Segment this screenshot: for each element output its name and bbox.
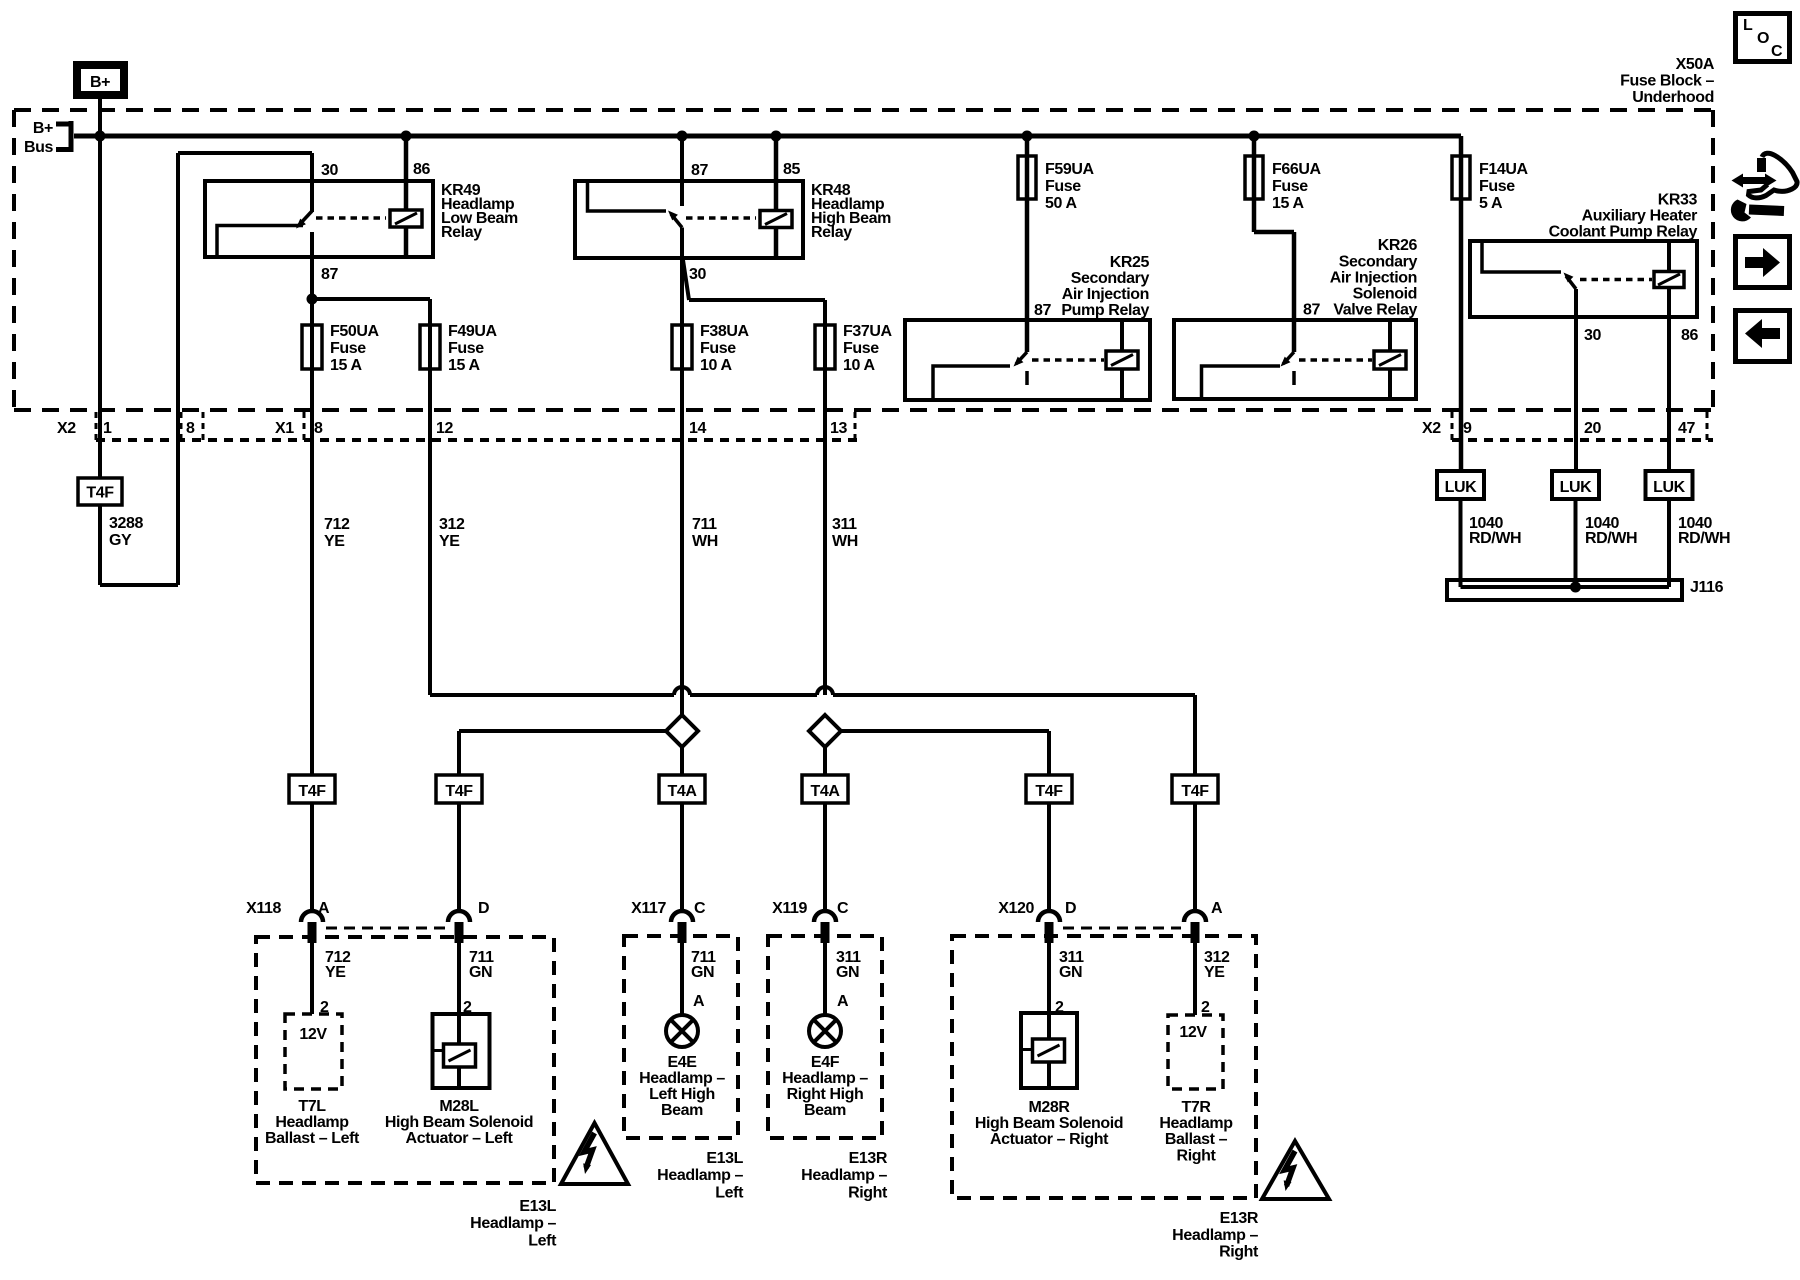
svg-text:E13L: E13L (706, 1150, 743, 1167)
svg-text:Secondary: Secondary (1339, 254, 1418, 271)
svg-text:Beam: Beam (661, 1102, 703, 1119)
svg-text:A: A (318, 900, 330, 917)
pin label A (E4F) (837, 993, 849, 1010)
pin label 2 (T7R) (1201, 999, 1210, 1016)
svg-text:WH: WH (832, 533, 858, 550)
fuse F59UA 50 A (1018, 156, 1095, 212)
relay KR48 Headlamp High Beam Relay (575, 181, 803, 258)
svg-text:D: D (1065, 900, 1076, 917)
svg-text:87: 87 (691, 162, 708, 179)
svg-text:E4F: E4F (811, 1054, 840, 1071)
splice diamond on 711 wire (666, 715, 698, 747)
svg-text:Secondary: Secondary (1071, 270, 1150, 287)
svg-text:711: 711 (692, 516, 717, 533)
svg-text:15 A: 15 A (448, 357, 480, 374)
pin label 87 (KR25) (1034, 302, 1051, 319)
pin label 30 (KR49) (321, 162, 338, 179)
label M28R High Beam Solenoid Actuator - Right (975, 1099, 1123, 1148)
in-line connector LUK 2 (1552, 471, 1599, 499)
wire 311 below diamond (823, 747, 827, 775)
svg-text:Solenoid: Solenoid (1353, 286, 1417, 303)
svg-text:LUK: LUK (1560, 479, 1593, 496)
in-line connector T4A at x=682 (659, 775, 705, 803)
svg-text:F37UA: F37UA (843, 323, 893, 340)
label E13R Headlamp Right (lamp box) (801, 1150, 888, 1202)
svg-text:8: 8 (314, 420, 323, 437)
wire 711 GN inside lamp box (680, 943, 684, 1015)
svg-text:Fuse: Fuse (448, 340, 484, 357)
svg-text:YE: YE (325, 964, 346, 981)
svg-text:20: 20 (1584, 420, 1601, 437)
svg-text:D: D (478, 900, 489, 917)
label E13R Headlamp Right (1172, 1210, 1259, 1261)
svg-text:E4E: E4E (667, 1054, 697, 1071)
icon LOC (1736, 14, 1790, 62)
svg-text:Beam: Beam (804, 1102, 846, 1119)
wire KR48 pin 87 from bus (680, 136, 684, 206)
in-line connector T4F (left, circuit 3288) (78, 478, 122, 505)
svg-text:E13L: E13L (519, 1198, 556, 1215)
junction node: F59UA on bus (1022, 131, 1033, 142)
svg-text:GY: GY (109, 532, 132, 549)
relay KR26 Secondary Air Injection Solenoid Valve Relay (1174, 320, 1416, 399)
relay KR25 Secondary Air Injection Pump Relay (905, 320, 1150, 400)
svg-text:J116: J116 (1690, 579, 1724, 596)
component box E13L Headlamp Left (high beam lamp) (624, 936, 738, 1138)
in-line connector T4F at x=1049 (1026, 775, 1072, 803)
junction node: KR48 87 on bus (677, 131, 688, 142)
svg-text:Relay: Relay (441, 224, 482, 241)
svg-text:High Beam Solenoid: High Beam Solenoid (385, 1114, 533, 1131)
label E13L Headlamp Left (lamp box) (657, 1150, 744, 1202)
label wire 3288 GY (109, 515, 143, 549)
svg-text:X50A: X50A (1676, 56, 1715, 73)
svg-text:Fuse: Fuse (843, 340, 879, 357)
svg-text:M28L: M28L (439, 1098, 479, 1115)
svg-text:High Beam Solenoid: High Beam Solenoid (975, 1115, 1123, 1132)
ballast T7R 12V box (1168, 1015, 1223, 1089)
label X50A Fuse Block - Underhood (1620, 56, 1715, 106)
svg-text:F59UA: F59UA (1045, 161, 1095, 178)
svg-text:Left: Left (715, 1185, 744, 1202)
warning triangle (E13L) (561, 1123, 628, 1184)
svg-text:Actuator – Right: Actuator – Right (990, 1131, 1109, 1148)
svg-text:O: O (1757, 30, 1769, 47)
fuse F66UA 15 A (1245, 156, 1322, 212)
svg-text:M28R: M28R (1028, 1099, 1070, 1116)
svg-text:B+: B+ (33, 120, 53, 137)
svg-text:30: 30 (321, 162, 338, 179)
wire 311 GN inside lamp box (823, 943, 827, 1015)
wire 712 YE inside E13L (310, 943, 314, 1014)
svg-text:Pump Relay: Pump Relay (1061, 302, 1149, 319)
label wire 1040 RD/WH (pin 9) (1469, 515, 1521, 547)
svg-text:3288: 3288 (109, 515, 143, 532)
svg-text:RD/WH: RD/WH (1469, 530, 1521, 547)
in-line connector LUK 3 (1646, 471, 1693, 499)
label wire 712 YE (inside) (325, 949, 351, 981)
svg-text:47: 47 (1678, 420, 1695, 437)
connector terminal C of X119 at x=825 (772, 900, 849, 943)
svg-text:Ballast –: Ballast – (1165, 1131, 1228, 1148)
fuse F38UA 10 A (672, 323, 750, 374)
wire 711 GN inside E13L (457, 943, 461, 1044)
icon arrow left (1736, 311, 1790, 362)
wire below T4 connector x=825 (823, 803, 827, 911)
pin label A (E4E) (693, 993, 705, 1010)
wire branch to F49UA (312, 299, 430, 695)
svg-text:Headlamp –: Headlamp – (782, 1070, 868, 1087)
actuator M28L solenoid (433, 1014, 490, 1088)
svg-text:A: A (693, 993, 705, 1010)
wire 311 GN branch to T4F(D) (841, 731, 1049, 775)
junction node: 87 to F49UA branch (307, 294, 318, 305)
in-line connector T4F at x=459 (436, 775, 482, 803)
svg-text:GN: GN (1059, 964, 1082, 981)
svg-text:T4F: T4F (1181, 783, 1209, 800)
svg-text:87: 87 (1303, 302, 1320, 319)
label wire 1040 RD/WH (pin 20) (1585, 515, 1637, 547)
label KR48 Headlamp High Beam Relay (811, 182, 891, 241)
connector terminal A of X118 at x=312 (246, 900, 330, 943)
wire 312 YE horizontal run with crossover hops (430, 687, 1195, 775)
svg-text:F14UA: F14UA (1479, 161, 1529, 178)
wire bus to F66UA to KR26 (jog) (1254, 136, 1294, 352)
svg-text:87: 87 (321, 266, 338, 283)
svg-text:Coolant Pump Relay: Coolant Pump Relay (1549, 224, 1698, 241)
svg-text:A: A (837, 993, 849, 1010)
svg-text:Actuator – Left: Actuator – Left (406, 1130, 514, 1147)
svg-text:X1: X1 (275, 420, 294, 437)
icon arrow right (1736, 237, 1790, 288)
wire 311 GN inside E13R (1047, 943, 1051, 1042)
svg-text:712: 712 (324, 516, 350, 533)
svg-text:Underhood: Underhood (1632, 89, 1714, 106)
wire below T4 connector x=312 (310, 803, 314, 911)
pin label 30 (KR48) (689, 266, 706, 283)
wire KR49 pin 87 down through fuse F50UA (310, 257, 314, 775)
svg-text:312: 312 (439, 516, 465, 533)
wire branch KR48 30 to F37UA (683, 260, 825, 695)
wire below T4 connector x=682 (680, 803, 684, 911)
label M28L High Beam Solenoid Actuator - Left (385, 1098, 533, 1147)
wire below T4 connector x=459 (457, 803, 461, 911)
svg-text:Fuse: Fuse (700, 340, 736, 357)
splice pack J116 (1447, 579, 1724, 600)
in-line connector T4F at x=1195 (1172, 775, 1218, 803)
svg-text:T4F: T4F (298, 783, 326, 800)
wire B+ feed down from B+ box (98, 99, 102, 478)
svg-text:RD/WH: RD/WH (1585, 530, 1637, 547)
svg-text:GN: GN (836, 964, 859, 981)
svg-text:Headlamp –: Headlamp – (1172, 1227, 1258, 1244)
warning triangle (E13R) (1262, 1141, 1329, 1199)
svg-text:Fuse Block –: Fuse Block – (1620, 73, 1714, 90)
wire bus to F59UA to KR25 (1025, 136, 1030, 352)
wire below T4 connector x=1195 (1193, 803, 1197, 911)
label T7R Headlamp Ballast - Right (1159, 1099, 1233, 1165)
svg-text:YE: YE (439, 533, 460, 550)
svg-text:T4A: T4A (667, 783, 697, 800)
svg-text:X118: X118 (246, 900, 281, 917)
svg-text:F38UA: F38UA (700, 323, 750, 340)
fuse F49UA 15 A (420, 323, 498, 374)
svg-text:15 A: 15 A (1272, 195, 1304, 212)
svg-text:30: 30 (689, 266, 706, 283)
svg-text:C: C (837, 900, 849, 917)
svg-text:GN: GN (691, 964, 714, 981)
svg-text:Fuse: Fuse (1479, 178, 1515, 195)
svg-text:Left High: Left High (649, 1086, 715, 1103)
pin label 87 (KR48) (691, 162, 708, 179)
label E4F Headlamp Right High Beam (782, 1054, 868, 1119)
svg-text:L: L (1743, 17, 1753, 34)
relay KR49 Headlamp Low Beam Relay (205, 181, 433, 257)
connector strip X2 (left) (57, 412, 860, 440)
wire 3288 GY U-loop (100, 153, 178, 585)
svg-text:X120: X120 (998, 900, 1034, 917)
svg-text:1: 1 (103, 420, 112, 437)
svg-text:T7L: T7L (298, 1098, 326, 1115)
connector terminal D at x=459 (448, 900, 489, 943)
junction node: KR49 86 on bus (401, 131, 412, 142)
icon service tools (arrow + wrench) (1731, 153, 1797, 221)
svg-text:Right: Right (1219, 1244, 1259, 1261)
svg-text:30: 30 (1584, 327, 1601, 344)
wire KR33 pin 86 down to LUK (pin 47) (1667, 288, 1671, 472)
component box E13R Headlamp Right (high beam lamp) (768, 936, 882, 1138)
pin label 30 (KR33) (1584, 327, 1601, 344)
svg-text:B+: B+ (90, 74, 110, 91)
svg-text:Headlamp: Headlamp (1159, 1115, 1233, 1132)
fuse F14UA 5 A (1452, 156, 1529, 212)
pin label 87 (KR49) (321, 266, 338, 283)
svg-text:Bus: Bus (24, 139, 54, 156)
svg-text:87: 87 (1034, 302, 1051, 319)
relay KR33 Auxiliary Heater Coolant Pump Relay (1470, 241, 1697, 317)
wire feed to KR49 pin 30 (178, 153, 312, 212)
svg-text:KR25: KR25 (1110, 254, 1150, 271)
svg-text:Fuse: Fuse (330, 340, 366, 357)
svg-text:GN: GN (469, 964, 492, 981)
component box E13R Headlamp Right (actuator+ballast) (952, 936, 1256, 1198)
wire below T4 connector x=1049 (1047, 803, 1051, 911)
svg-text:C: C (1771, 43, 1783, 60)
svg-text:T4F: T4F (445, 783, 473, 800)
svg-text:10 A: 10 A (700, 357, 732, 374)
ballast T7L 12V box (285, 1014, 342, 1089)
svg-text:T4F: T4F (1035, 783, 1063, 800)
svg-text:YE: YE (324, 533, 345, 550)
svg-text:12V: 12V (299, 1026, 327, 1043)
label E13L Headlamp Left (470, 1198, 557, 1250)
connector strip X1 (275, 412, 855, 440)
svg-text:15 A: 15 A (330, 357, 362, 374)
svg-text:Auxiliary Heater: Auxiliary Heater (1582, 208, 1698, 225)
svg-text:86: 86 (1681, 327, 1698, 344)
B+ Bus terminal bracket (24, 120, 71, 156)
pin label 2 (M28R) (1055, 999, 1064, 1016)
pin label 85 (KR48) (783, 161, 800, 178)
svg-text:F49UA: F49UA (448, 323, 498, 340)
svg-text:Headlamp –: Headlamp – (639, 1070, 725, 1087)
label KR49 Headlamp Low Beam Relay (441, 182, 518, 241)
pin label 87 (KR26) (1303, 302, 1320, 319)
svg-text:50 A: 50 A (1045, 195, 1077, 212)
connector terminal C of X117 at x=682 (631, 900, 706, 943)
actuator M28R solenoid (1021, 1013, 1077, 1088)
wire LUK2 to J116 (1574, 499, 1578, 587)
svg-text:Fuse: Fuse (1045, 178, 1081, 195)
svg-text:13: 13 (830, 420, 847, 437)
svg-text:X2: X2 (57, 420, 76, 437)
label wire 312 YE (439, 516, 465, 550)
label T7L Headlamp Ballast - Left (265, 1098, 360, 1147)
svg-text:A: A (1211, 900, 1223, 917)
wire 712 YE (X1-8 down to X118-A) (310, 369, 314, 775)
svg-text:T7R: T7R (1181, 1099, 1211, 1116)
component box E13L Headlamp Left (ballast+actuator) (256, 937, 554, 1183)
svg-text:F66UA: F66UA (1272, 161, 1322, 178)
svg-text:Headlamp –: Headlamp – (657, 1167, 743, 1184)
in-line connector T4A at x=825 (802, 775, 848, 803)
label wire 311 GN (inside E13R) (1059, 949, 1084, 981)
label KR25 Secondary Air Injection Pump Relay (1061, 254, 1149, 319)
fuse F50UA 15 A (302, 323, 380, 374)
wire F14UA down to LUK (pin 9) (1459, 136, 1464, 471)
svg-text:Headlamp –: Headlamp – (470, 1215, 556, 1232)
svg-text:Air Injection: Air Injection (1330, 270, 1417, 287)
wire LUK3 to J116 (1667, 499, 1671, 587)
wire 711 GN branch to T4F(D) (459, 731, 666, 775)
wire 711 below diamond (680, 747, 684, 775)
label KR33 Auxiliary Heater Coolant Pump Relay (1549, 192, 1698, 241)
connector X118 pin link dashed (326, 927, 445, 930)
junction node: F66UA on bus (1249, 131, 1260, 142)
svg-text:Valve Relay: Valve Relay (1333, 302, 1417, 319)
svg-text:LUK: LUK (1653, 479, 1686, 496)
wire KR48 pin 30 down through fuse F38UA (680, 228, 684, 716)
connector terminal A at x=1195 (1184, 900, 1223, 943)
in-line connector T4F at x=312 (289, 775, 335, 803)
svg-text:X117: X117 (631, 900, 666, 917)
svg-text:9: 9 (1463, 420, 1472, 437)
svg-text:C: C (694, 900, 706, 917)
svg-text:T4F: T4F (86, 485, 114, 502)
label wire 711 WH (692, 516, 718, 550)
lamp E4F Headlamp Right High Beam (809, 1015, 841, 1047)
label KR26 Secondary Air Injection Solenoid Valve Relay (1330, 237, 1418, 319)
svg-text:85: 85 (783, 161, 800, 178)
connector X120 pin link dashed (1063, 927, 1181, 930)
svg-text:86: 86 (413, 161, 430, 178)
splice diamond on 311 wire (809, 715, 841, 747)
svg-text:12: 12 (436, 420, 453, 437)
svg-text:RD/WH: RD/WH (1678, 530, 1730, 547)
svg-text:Ballast – Left: Ballast – Left (265, 1130, 360, 1147)
svg-text:YE: YE (1204, 964, 1225, 981)
wire KR49 pin 86 from bus (404, 136, 409, 257)
svg-text:5 A: 5 A (1479, 195, 1503, 212)
svg-text:Air Injection: Air Injection (1062, 286, 1149, 303)
bus wire B+ Bus (74, 134, 1461, 139)
svg-text:8: 8 (186, 420, 195, 437)
fuse F37UA 10 A (815, 323, 893, 374)
label wire 712 YE (324, 516, 350, 550)
svg-text:X2: X2 (1422, 420, 1441, 437)
svg-text:14: 14 (689, 420, 706, 437)
wire KR33 pin 30 down to LUK (pin 20) (1574, 289, 1578, 471)
svg-text:F50UA: F50UA (330, 323, 380, 340)
junction node: KR48 85 on bus (771, 131, 782, 142)
svg-text:X119: X119 (772, 900, 807, 917)
wire KR48 pin 85 from bus (774, 136, 779, 258)
svg-text:311: 311 (832, 516, 857, 533)
label wire 311 WH (832, 516, 858, 550)
lamp E4E Headlamp Left High Beam (666, 1015, 698, 1047)
svg-text:WH: WH (692, 533, 718, 550)
label E4E Headlamp Left High Beam (639, 1054, 725, 1119)
connector terminal D of X120 at x=1049 (998, 900, 1076, 943)
svg-text:LUK: LUK (1445, 479, 1478, 496)
svg-text:Relay: Relay (811, 224, 852, 241)
pin label 86 (KR49) (413, 161, 430, 178)
svg-text:T4A: T4A (810, 783, 840, 800)
svg-text:Left: Left (528, 1233, 557, 1250)
svg-text:KR33: KR33 (1658, 192, 1698, 209)
fuse block X50A underhood dashed outline (14, 110, 1713, 410)
label wire 711 GN (inside E13L) (469, 949, 494, 981)
svg-text:Headlamp: Headlamp (275, 1114, 349, 1131)
svg-text:Fuse: Fuse (1272, 178, 1308, 195)
svg-text:Right High: Right High (787, 1086, 864, 1103)
in-line connector LUK 1 (1437, 471, 1484, 499)
svg-text:E13R: E13R (849, 1150, 888, 1167)
svg-text:Right: Right (848, 1185, 888, 1202)
svg-text:KR26: KR26 (1378, 237, 1418, 254)
pin label 86 (KR33) (1681, 327, 1698, 344)
label wire 311 GN (lamp box) (836, 949, 861, 981)
svg-text:12V: 12V (1179, 1024, 1207, 1041)
pin label 2 (T7L) (320, 999, 329, 1016)
label wire 1040 RD/WH (pin 47) (1678, 515, 1730, 547)
svg-text:Right: Right (1177, 1148, 1217, 1165)
wire 312 YE inside E13R (1193, 943, 1197, 1015)
svg-text:E13R: E13R (1220, 1210, 1259, 1227)
power symbol B+ (77, 65, 124, 95)
pin label 2 (M28L) (463, 999, 472, 1016)
junction node: B+ feed on bus (95, 131, 106, 142)
svg-text:Headlamp –: Headlamp – (801, 1167, 887, 1184)
svg-text:10 A: 10 A (843, 357, 875, 374)
wire LUK1 to J116 (1459, 499, 1463, 587)
connector strip X2 (right) (1422, 412, 1713, 440)
label wire 711 GN (lamp box) (691, 949, 716, 981)
label wire 312 YE (inside E13R) (1204, 949, 1230, 981)
